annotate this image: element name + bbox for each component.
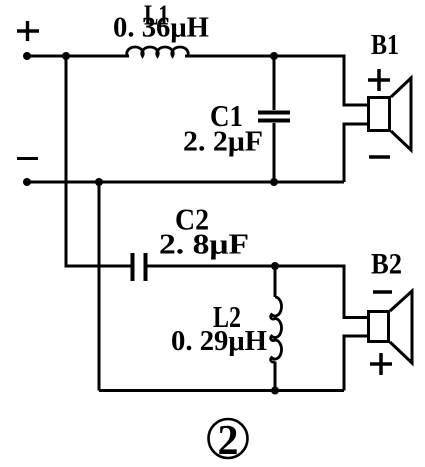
svg-text:B2: B2 (371, 248, 402, 281)
figure number circle 2 (209, 419, 248, 458)
node: plus input terminal dot (23, 52, 31, 60)
svg-text:0. 36μH: 0. 36μH (113, 13, 209, 44)
speaker B1 minus polarity mark (369, 155, 390, 159)
wire minus rail (27, 181, 344, 184)
svg-text:0. 29μH: 0. 29μH (171, 326, 267, 357)
inductor L1 (127, 47, 188, 56)
svg-text:2: 2 (218, 418, 239, 464)
node junction L2 bottom (271, 387, 279, 395)
wire B1 bottom stub down to minus rail (344, 124, 368, 182)
wire B2 bottom stub down to bottom rail (344, 336, 368, 391)
node: minus input terminal dot (23, 178, 31, 186)
wire top rail left (27, 55, 129, 58)
svg-text:2. 2μF: 2. 2μF (183, 126, 263, 158)
speaker B2 driver rectangle (369, 312, 389, 342)
plus input terminal symbol (17, 21, 39, 41)
svg-text:2. 8μF: 2. 8μF (159, 229, 249, 261)
node junction C2/L2/B2 (271, 262, 279, 270)
wire plus feed down to C2 (66, 56, 131, 266)
wire minus feed down to bottom rail (98, 182, 101, 391)
wire top rail right, corner down to B1 top stub (185, 56, 368, 105)
speaker B1 driver rectangle (369, 98, 390, 131)
speaker B2 cone (390, 291, 412, 363)
speaker B1 cone (391, 78, 411, 150)
wire bottom rail (99, 389, 344, 392)
inductor L2 (271, 297, 282, 362)
speaker B2 plus polarity mark (370, 353, 392, 375)
node junction L1/C1/B1 (270, 52, 278, 60)
node junction C1 bottom (270, 178, 278, 186)
capacitor C2 (133, 253, 146, 281)
speaker B2 minus polarity mark (373, 290, 392, 294)
wire C1 top lead (273, 56, 276, 110)
wire L2 bottom lead (274, 362, 277, 391)
speaker B1 plus polarity mark (368, 69, 390, 91)
minus input terminal symbol (17, 157, 38, 160)
svg-text:B1: B1 (371, 29, 399, 61)
wire C1 bottom lead (273, 123, 276, 182)
node junction minus rail (95, 178, 103, 186)
wire C2 output to junction, corner down to B2 top stub (147, 266, 368, 318)
node junction top rail (62, 52, 70, 60)
wire L2 top lead (274, 266, 277, 297)
capacitor C1 (258, 113, 290, 121)
